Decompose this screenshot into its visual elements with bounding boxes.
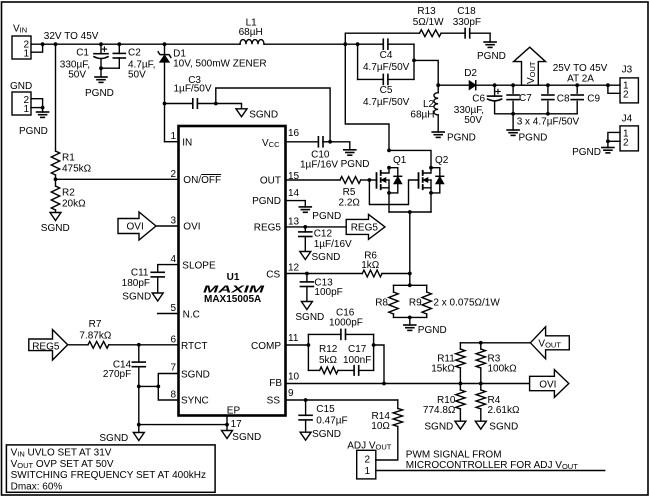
svg-text:SGND: SGND — [122, 292, 151, 303]
svg-text:SLOPE: SLOPE — [182, 261, 216, 272]
svg-text:ADJ VOUT: ADJ VOUT — [347, 441, 392, 452]
svg-text:C2: C2 — [128, 48, 141, 59]
svg-text:15kΩ: 15kΩ — [431, 364, 455, 375]
svg-text:14: 14 — [288, 188, 300, 199]
svg-text:C4: C4 — [380, 50, 393, 61]
svg-text:J4: J4 — [622, 114, 633, 125]
svg-text:2: 2 — [623, 137, 629, 148]
svg-text:SGND: SGND — [295, 312, 324, 323]
svg-text:AT 2A: AT 2A — [567, 74, 594, 85]
svg-text:50V: 50V — [464, 115, 482, 126]
svg-text:32V TO 45V: 32V TO 45V — [44, 31, 99, 42]
svg-text:25V TO 45V: 25V TO 45V — [553, 63, 608, 74]
svg-text:PGND: PGND — [447, 133, 476, 144]
svg-text:C11: C11 — [131, 267, 149, 278]
svg-text:VIN: VIN — [13, 24, 27, 35]
svg-text:SGND: SGND — [99, 433, 128, 444]
svg-text:D2: D2 — [464, 68, 477, 79]
svg-text:OUT: OUT — [260, 176, 281, 187]
svg-text:OVI: OVI — [127, 222, 144, 233]
svg-text:1µF/50V: 1µF/50V — [174, 84, 212, 95]
svg-text:PGND: PGND — [477, 51, 506, 62]
svg-text:R1: R1 — [62, 153, 75, 164]
svg-text:SGND: SGND — [181, 369, 210, 380]
svg-text:RTCT: RTCT — [181, 341, 207, 352]
svg-text:C18: C18 — [457, 6, 476, 17]
svg-text:SWITCHING FREQUENCY SET AT 400: SWITCHING FREQUENCY SET AT 400kHz — [11, 470, 206, 481]
svg-text:CS: CS — [266, 270, 280, 281]
svg-text:C8: C8 — [557, 93, 570, 104]
svg-text:PGND: PGND — [519, 133, 548, 144]
svg-text:SGND: SGND — [312, 252, 341, 263]
svg-text:SGND: SGND — [312, 429, 341, 440]
svg-text:C12: C12 — [314, 229, 333, 240]
svg-text:GND: GND — [10, 81, 32, 92]
svg-text:VOUT: VOUT — [538, 339, 561, 350]
svg-text:1: 1 — [23, 48, 29, 59]
svg-text:2: 2 — [364, 455, 370, 466]
svg-text:C15: C15 — [316, 404, 335, 415]
svg-text:330pF: 330pF — [453, 17, 481, 28]
svg-text:PGND: PGND — [312, 211, 341, 222]
svg-text:C7: C7 — [519, 93, 532, 104]
svg-text:100kΩ: 100kΩ — [488, 364, 518, 375]
svg-text:MICROCONTROLLER FOR ADJ VOUT: MICROCONTROLLER FOR ADJ VOUT — [406, 460, 578, 471]
svg-text:C5: C5 — [380, 85, 393, 96]
svg-text:10: 10 — [288, 372, 300, 383]
svg-text:180pF: 180pF — [122, 278, 150, 289]
svg-text:68µH: 68µH — [239, 27, 263, 38]
svg-text:REG5: REG5 — [32, 341, 60, 352]
svg-text:4: 4 — [170, 254, 176, 265]
svg-text:774.8Ω: 774.8Ω — [423, 405, 456, 416]
svg-text:C9: C9 — [587, 93, 600, 104]
svg-text:3 x 4.7µF/50V: 3 x 4.7µF/50V — [517, 117, 580, 128]
svg-text:5: 5 — [170, 303, 176, 314]
svg-text:1000pF: 1000pF — [329, 318, 363, 329]
svg-text:R7: R7 — [89, 319, 102, 330]
svg-text:PGND: PGND — [572, 147, 601, 158]
svg-text:VOUT: VOUT — [526, 61, 537, 84]
svg-text:R8: R8 — [375, 298, 388, 309]
svg-text:R2: R2 — [62, 188, 75, 199]
svg-text:2: 2 — [623, 90, 629, 101]
svg-text:1µF/16V: 1µF/16V — [300, 160, 338, 171]
svg-text:Q1: Q1 — [393, 155, 407, 166]
svg-text:SGND: SGND — [424, 422, 453, 433]
svg-text:20kΩ: 20kΩ — [62, 199, 86, 210]
svg-text:12: 12 — [288, 263, 300, 274]
svg-text:FB: FB — [269, 378, 282, 389]
svg-text:50V: 50V — [128, 70, 146, 81]
svg-text:7: 7 — [170, 363, 176, 374]
svg-text:VCC: VCC — [262, 138, 280, 149]
svg-text:1: 1 — [170, 131, 176, 142]
svg-text:SGND: SGND — [41, 223, 70, 234]
svg-text:1: 1 — [23, 104, 29, 115]
svg-text:C17: C17 — [348, 344, 367, 355]
svg-text:16: 16 — [288, 128, 300, 139]
svg-text:U1: U1 — [227, 272, 240, 283]
svg-text:1µF/16V: 1µF/16V — [314, 239, 352, 250]
svg-text:R13: R13 — [417, 6, 436, 17]
svg-text:J3: J3 — [622, 64, 633, 75]
svg-text:100nF: 100nF — [343, 355, 371, 366]
svg-text:7.87kΩ: 7.87kΩ — [79, 331, 111, 342]
svg-text:11: 11 — [288, 333, 299, 344]
svg-text:2.2Ω: 2.2Ω — [339, 197, 361, 208]
svg-text:PGND: PGND — [19, 126, 48, 137]
svg-text:OVI: OVI — [183, 222, 200, 233]
svg-text:SYNC: SYNC — [181, 396, 209, 407]
svg-text:Dmax: 60%: Dmax: 60% — [11, 482, 63, 493]
svg-text:L2: L2 — [423, 99, 435, 110]
svg-text:VOUT OVP SET AT 50V: VOUT OVP SET AT 50V — [11, 459, 114, 470]
svg-text:10Ω: 10Ω — [371, 421, 390, 432]
svg-text:R12: R12 — [319, 344, 338, 355]
svg-text:C6: C6 — [472, 93, 485, 104]
svg-text:OVI: OVI — [539, 380, 556, 391]
svg-text:N.C: N.C — [183, 310, 200, 321]
svg-text:17: 17 — [231, 419, 243, 430]
svg-text:475kΩ: 475kΩ — [62, 164, 92, 175]
svg-text:50V: 50V — [68, 70, 86, 81]
svg-text:REG5: REG5 — [254, 223, 282, 234]
svg-text:4.7µF/50V: 4.7µF/50V — [363, 62, 410, 73]
svg-text:13: 13 — [288, 217, 300, 228]
svg-text:1: 1 — [364, 466, 370, 477]
svg-text:REG5: REG5 — [351, 222, 379, 233]
svg-text:C1: C1 — [76, 48, 89, 59]
svg-text:R9: R9 — [409, 298, 422, 309]
svg-text:Q2: Q2 — [435, 155, 449, 166]
svg-text:68µH: 68µH — [410, 110, 434, 121]
svg-text:ON/OFF: ON/OFF — [183, 175, 221, 186]
svg-text:270pF: 270pF — [103, 369, 131, 380]
svg-text:1kΩ: 1kΩ — [361, 260, 380, 271]
svg-text:VIN UVLO SET AT 31V: VIN UVLO SET AT 31V — [11, 448, 112, 459]
svg-text:5Ω/1W: 5Ω/1W — [413, 17, 444, 28]
svg-text:6: 6 — [170, 335, 176, 346]
svg-text:EP: EP — [227, 406, 241, 417]
svg-text:PGND: PGND — [341, 159, 370, 170]
svg-text:9: 9 — [288, 388, 294, 399]
svg-text:IN: IN — [182, 137, 192, 148]
svg-text:3: 3 — [170, 216, 176, 227]
svg-text:4.7µF/50V: 4.7µF/50V — [363, 97, 410, 108]
svg-text:SGND: SGND — [489, 422, 518, 433]
svg-text:SGND: SGND — [232, 432, 261, 443]
svg-text:PGND: PGND — [85, 88, 114, 99]
svg-text:2.61kΩ: 2.61kΩ — [488, 405, 520, 416]
svg-text:5kΩ: 5kΩ — [319, 355, 338, 366]
svg-text:PGND: PGND — [418, 325, 447, 336]
svg-text:PWM SIGNAL FROM: PWM SIGNAL FROM — [406, 450, 502, 461]
svg-text:2 x 0.075Ω/1W: 2 x 0.075Ω/1W — [433, 298, 500, 309]
svg-text:PGND: PGND — [252, 196, 281, 207]
svg-text:8: 8 — [170, 389, 176, 400]
svg-text:COMP: COMP — [251, 341, 281, 352]
svg-text:10V, 500mW ZENER: 10V, 500mW ZENER — [173, 59, 267, 70]
svg-text:0.47µF: 0.47µF — [316, 416, 347, 427]
svg-text:100pF: 100pF — [314, 287, 342, 298]
svg-text:MAX15005A: MAX15005A — [204, 294, 261, 305]
svg-text:SS: SS — [267, 395, 281, 406]
svg-text:2: 2 — [170, 169, 176, 180]
svg-text:SGND: SGND — [249, 110, 278, 121]
